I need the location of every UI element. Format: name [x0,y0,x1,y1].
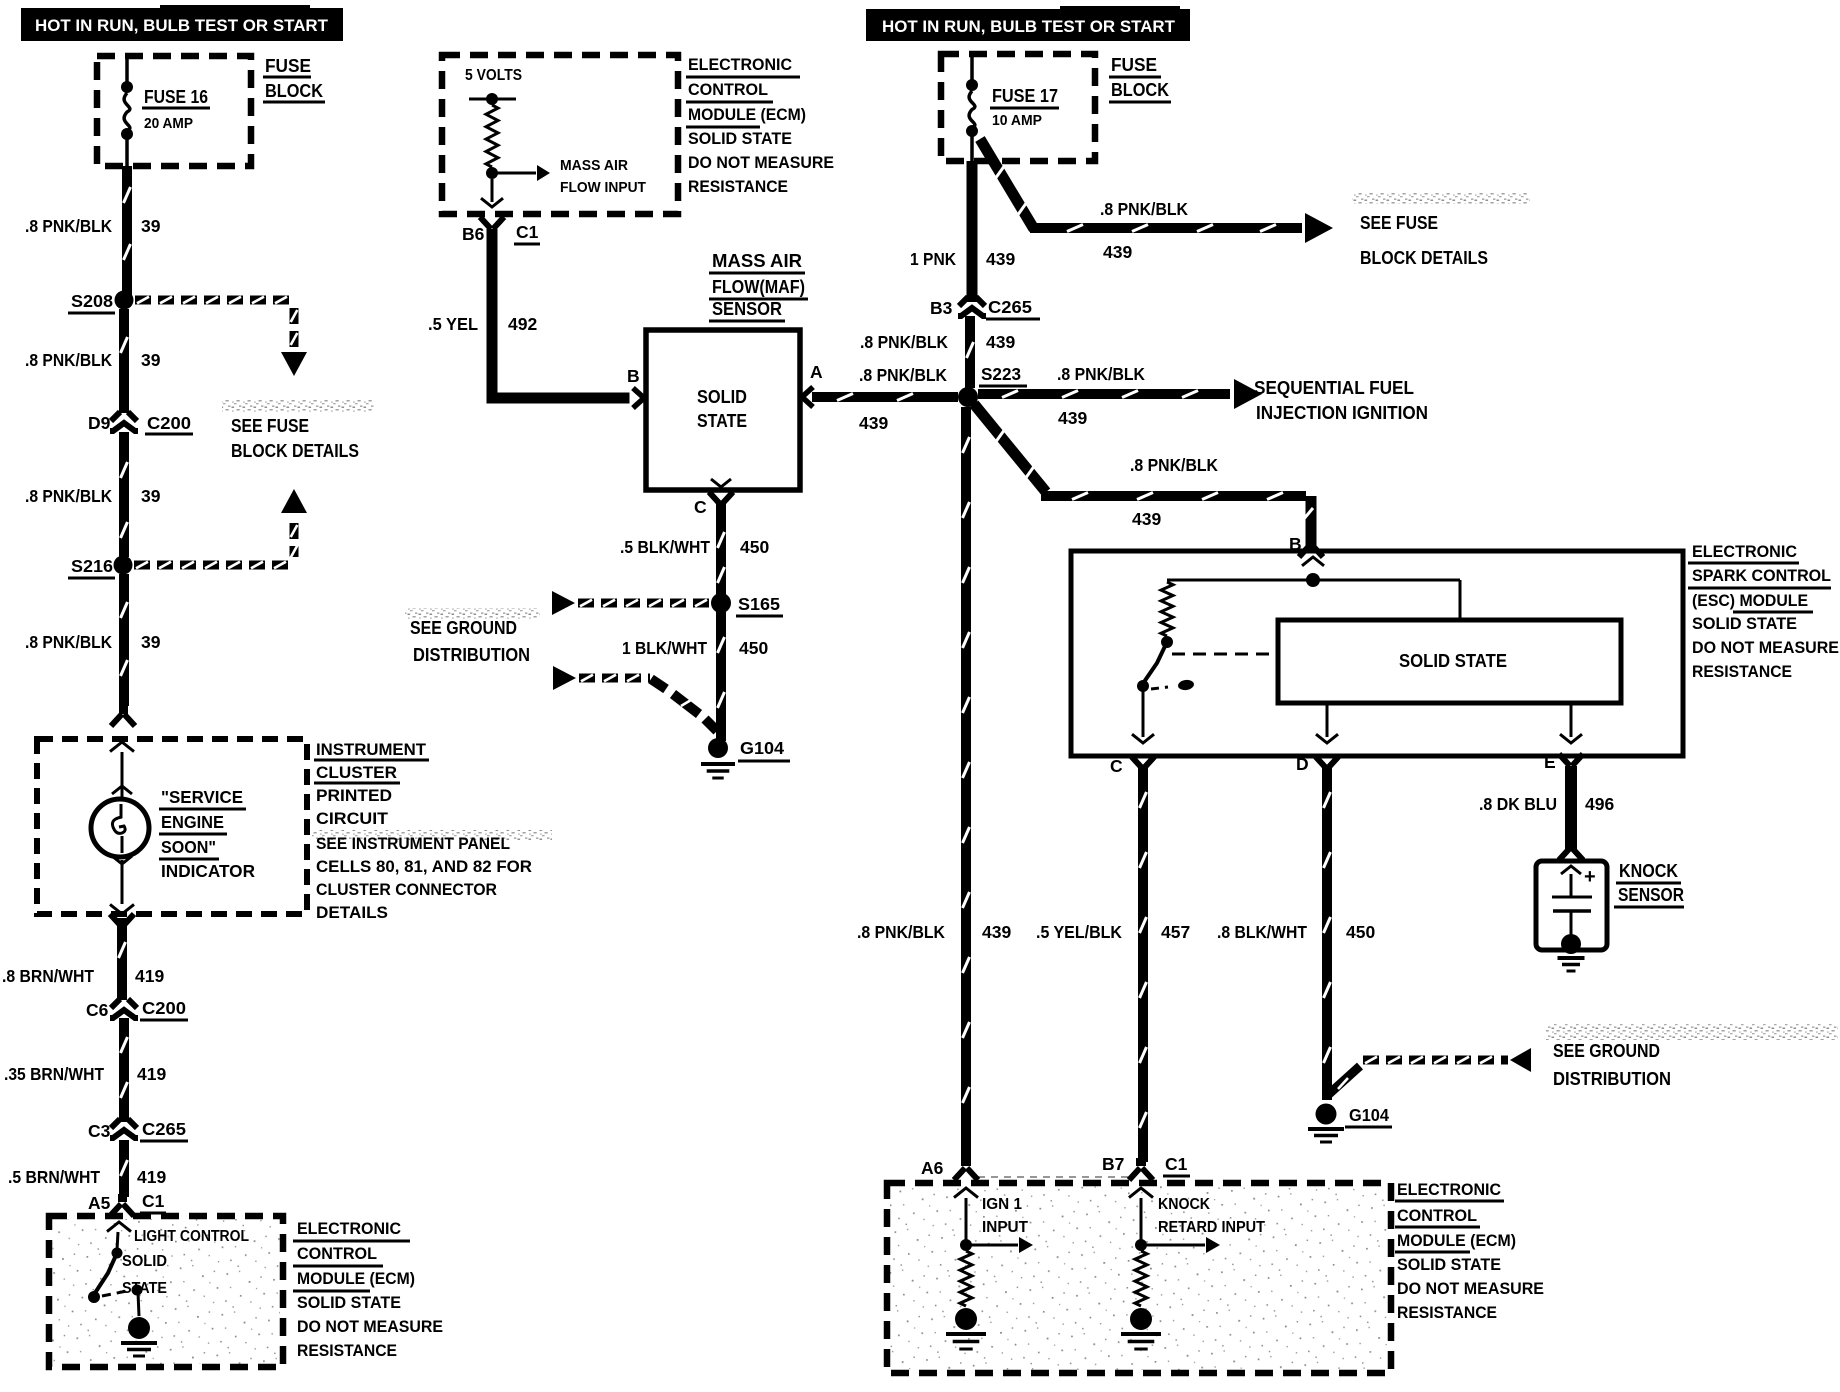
MAF sensor box [646,330,800,490]
wire MAF A to S223, .8 PNK/BLK 439 [812,392,958,402]
svg-text:CONTROL: CONTROL [688,81,768,99]
svg-text:FUSE 16: FUSE 16 [144,87,208,107]
connector C200 pin C6 [111,999,137,1008]
svg-text:.5 YEL/BLK: .5 YEL/BLK [1036,922,1122,942]
svg-text:+: + [1584,866,1596,888]
svg-text:SOLID STATE: SOLID STATE [297,1294,401,1312]
svg-text:496: 496 [1585,794,1614,814]
fuse block (left) dashed box [97,56,251,166]
svg-text:STATE: STATE [122,1280,167,1297]
svg-text:INDICATOR: INDICATOR [161,861,255,881]
svg-text:439: 439 [1058,408,1087,428]
svg-text:439: 439 [1132,509,1161,529]
svg-text:.5 BLK/WHT: .5 BLK/WHT [620,537,710,557]
svg-text:450: 450 [1346,922,1375,942]
wire S208 to D9, .8 PNK/BLK 39 [119,309,129,413]
wire E to knock sensor, .8 DK BLU 496 [1565,766,1577,849]
svg-text:CLUSTER CONNECTOR: CLUSTER CONNECTOR [316,881,497,899]
svg-text:.8 PNK/BLK: .8 PNK/BLK [860,332,948,352]
svg-text:(ESC) MODULE: (ESC) MODULE [1692,592,1808,610]
svg-text:SOLID STATE: SOLID STATE [1692,615,1797,633]
svg-text:.8 PNK/BLK: .8 PNK/BLK [1100,199,1188,219]
svg-text:10 AMP: 10 AMP [992,112,1042,129]
svg-text:RESISTANCE: RESISTANCE [1692,663,1792,681]
svg-text:SEE GROUND: SEE GROUND [410,618,517,638]
svg-text:457: 457 [1161,922,1190,942]
svg-text:.8 PNK/BLK: .8 PNK/BLK [25,350,112,370]
ground G104 (right) [1316,1104,1337,1125]
svg-text:.5 BRN/WHT: .5 BRN/WHT [8,1167,100,1187]
fuse F16 [125,56,129,83]
svg-text:ELECTRONIC: ELECTRONIC [1397,1181,1501,1199]
node S208 [115,291,134,310]
svg-text:CONTROL: CONTROL [1397,1207,1477,1225]
svg-text:C1: C1 [1165,1154,1188,1174]
svg-text:B3: B3 [930,298,953,318]
svg-text:439: 439 [859,413,888,433]
connector C265 pin B3 [959,297,985,306]
svg-text:RESISTANCE: RESISTANCE [1397,1304,1497,1322]
svg-text:HOT IN RUN, BULB TEST OR START: HOT IN RUN, BULB TEST OR START [882,18,1175,36]
knock sensor ground [1561,934,1581,954]
svg-text:.8 PNK/BLK: .8 PNK/BLK [857,922,945,942]
svg-text:MODULE (ECM): MODULE (ECM) [688,106,806,124]
ESC internal resistor [1161,582,1173,636]
svg-text:SOLID STATE: SOLID STATE [1397,1256,1501,1274]
svg-text:E: E [1544,752,1556,772]
svg-text:KNOCK: KNOCK [1619,861,1678,881]
svg-text:.8 PNK/BLK: .8 PNK/BLK [1130,455,1218,475]
svg-text:C200: C200 [147,413,191,433]
svg-text:MASS AIR: MASS AIR [712,251,802,271]
svg-text:CIRCUIT: CIRCUIT [316,810,388,828]
svg-text:"SERVICE: "SERVICE [161,787,243,807]
svg-text:DO NOT MEASURE: DO NOT MEASURE [1397,1280,1544,1298]
svg-text:.8 PNK/BLK: .8 PNK/BLK [859,365,947,385]
svg-text:C265: C265 [142,1119,186,1139]
svg-text:439: 439 [982,922,1011,942]
svg-text:C265: C265 [988,297,1032,317]
wire fuse17 down, 1 PNK 439 [967,161,978,302]
svg-text:439: 439 [1103,242,1132,262]
SEE GROUND DISTRIBUTION text (middle) [405,608,540,619]
svg-text:INSTRUMENT: INSTRUMENT [316,741,426,759]
svg-text:G104: G104 [1349,1105,1389,1125]
svg-text:ELECTRONIC: ELECTRONIC [1692,543,1797,561]
svg-text:39: 39 [141,216,161,236]
svg-text:.8 BLK/WHT: .8 BLK/WHT [1217,922,1307,942]
svg-text:.8 PNK/BLK: .8 PNK/BLK [25,632,112,652]
svg-text:FLOW(MAF): FLOW(MAF) [712,277,805,297]
svg-text:B6: B6 [462,224,485,244]
svg-text:DISTRIBUTION: DISTRIBUTION [1553,1069,1671,1089]
svg-text:A: A [810,362,823,382]
svg-text:CONTROL: CONTROL [297,1245,377,1263]
svg-text:INJECTION IGNITION: INJECTION IGNITION [1256,403,1428,423]
svg-text:KNOCK: KNOCK [1158,1196,1211,1213]
wire fuse16 to S208, .8 PNK/BLK 39 [122,166,132,296]
svg-text:419: 419 [137,1167,166,1187]
svg-text:S208: S208 [71,291,113,311]
wire B6 to MAF sensor B, .5 YEL 492 [487,229,498,398]
svg-text:.8 PNK/BLK: .8 PNK/BLK [1057,364,1145,384]
svg-text:DO NOT MEASURE: DO NOT MEASURE [688,154,834,172]
dashed wire S216 to fuse-block-details arrow (up) [134,561,150,570]
svg-text:.8 PNK/BLK: .8 PNK/BLK [25,486,112,506]
svg-text:SEQUENTIAL FUEL: SEQUENTIAL FUEL [1254,378,1414,398]
svg-text:BLOCK DETAILS: BLOCK DETAILS [1360,248,1488,268]
svg-text:419: 419 [135,966,164,986]
ECM (light control) dashed box bottom-left [52,1219,280,1364]
ECM dashed box bottom-right [890,1186,1388,1370]
svg-text:SOLID STATE: SOLID STATE [688,130,792,148]
svg-text:.8 DK BLU: .8 DK BLU [1479,794,1557,814]
wire cluster to C6, .8 BRN/WHT 419 [110,914,134,926]
instrument cluster dashed box [37,739,307,914]
svg-text:SEE FUSE: SEE FUSE [231,416,309,436]
connector into instrument cluster [111,714,135,726]
wire S223 to sequential fuel injection, .8 PNK/BLK 439 [978,389,1230,399]
svg-text:439: 439 [986,249,1015,269]
svg-text:FUSE: FUSE [265,56,311,76]
svg-text:STATE: STATE [697,411,747,431]
svg-text:RESISTANCE: RESISTANCE [297,1342,397,1360]
svg-text:39: 39 [141,632,161,652]
svg-text:RETARD INPUT: RETARD INPUT [1158,1219,1265,1236]
wire S216 to instrument cluster, .8 PNK/BLK 39 [119,574,129,706]
svg-text:5 VOLTS: 5 VOLTS [465,67,522,84]
svg-text:CELLS 80, 81, AND 82 FOR: CELLS 80, 81, AND 82 FOR [316,858,532,876]
light control driver switch [117,1232,118,1250]
MAF terminal A flare [802,387,813,407]
svg-text:SEE GROUND: SEE GROUND [1553,1041,1660,1061]
svg-text:S223: S223 [981,364,1021,384]
svg-text:C1: C1 [516,222,539,242]
svg-text:DO NOT MEASURE: DO NOT MEASURE [1692,639,1839,657]
ESC module outer box [1071,551,1683,756]
svg-text:S216: S216 [71,556,113,576]
svg-text:DETAILS: DETAILS [316,904,388,922]
svg-text:C1: C1 [142,1191,165,1211]
svg-text:CLUSTER: CLUSTER [316,764,397,782]
ESC internal node [1306,573,1320,587]
knock sensor box [1536,861,1607,950]
svg-text:450: 450 [740,537,769,557]
svg-text:20 AMP: 20 AMP [144,115,193,132]
svg-text:IGN 1: IGN 1 [982,1196,1022,1213]
svg-text:.8 BRN/WHT: .8 BRN/WHT [2,966,94,986]
connector C200 pin D9 [111,412,137,421]
node S216 [114,556,133,575]
svg-text:SEE FUSE: SEE FUSE [1360,213,1438,233]
svg-text:.8 PNK/BLK: .8 PNK/BLK [25,216,112,236]
svg-text:FUSE: FUSE [1111,55,1157,75]
svg-text:S165: S165 [738,594,780,614]
svg-text:439: 439 [986,332,1015,352]
svg-text:1 PNK: 1 PNK [910,249,956,269]
svg-text:.35 BRN/WHT: .35 BRN/WHT [4,1064,104,1084]
wire B3 to S223, .8 PNK/BLK 439 [965,316,975,388]
svg-text:ENGINE: ENGINE [161,812,224,832]
wire ESC D to G104, .8 BLK/WHT 450 [1322,767,1332,1100]
svg-text:SOLID: SOLID [122,1253,167,1270]
wire C3 to A5, .5 BRN/WHT 419 [119,1140,129,1197]
KNOCK RETARD input circuit [1129,1188,1153,1198]
pull-up resistor in ECM [486,105,498,167]
MAF terminal C [711,479,731,487]
svg-text:39: 39 [141,486,161,506]
svg-text:BLOCK: BLOCK [265,81,323,101]
connector C265 pin C3 [111,1119,137,1128]
node: HOT IN RUN BULB TEST OR START label (right) [866,9,1190,41]
svg-text:.5 YEL: .5 YEL [428,314,478,334]
node S165 [711,593,731,613]
svg-text:SOLID: SOLID [697,387,747,407]
ground G104 (middle) [708,738,728,758]
svg-text:419: 419 [137,1064,166,1084]
svg-text:DISTRIBUTION: DISTRIBUTION [413,645,530,665]
SERVICE ENGINE SOON indicator bulb [121,752,124,800]
svg-text:HOT IN RUN, BULB TEST OR START: HOT IN RUN, BULB TEST OR START [35,17,328,35]
svg-text:C: C [694,497,707,517]
svg-text:SEE INSTRUMENT PANEL: SEE INSTRUMENT PANEL [316,835,510,853]
svg-text:D: D [1296,754,1309,774]
svg-text:A5: A5 [88,1193,111,1213]
svg-text:SPARK CONTROL: SPARK CONTROL [1692,567,1831,585]
fuse F17 [970,54,974,81]
svg-text:SOON": SOON" [161,837,216,857]
dashed wire to S165 from ground distribution [552,591,575,615]
fuse block (right) dashed box [941,54,1095,161]
ESC dashed control link [1172,653,1278,656]
svg-text:MASS AIR: MASS AIR [560,157,628,174]
svg-text:FLOW INPUT: FLOW INPUT [560,179,646,196]
ESC internal wires to terminals [1142,690,1145,737]
mass air flow input arrow [492,172,536,175]
branch wire to fuse block details, .8 PNK/BLK 439 [980,139,1034,229]
svg-text:ELECTRONIC: ELECTRONIC [297,1220,401,1238]
MAF terminal B flare [633,388,644,408]
knock sensor piezo capacitor [1570,874,1573,896]
dashed wire S208 to fuse-block-details arrow (down) [135,296,151,305]
svg-text:G104: G104 [740,738,784,758]
ESC internal switch [1144,642,1167,682]
dashed wire joining G104 from ground distribution [553,666,576,690]
wire S223 to ESC B, .8 PNK/BLK 439 [974,404,1046,492]
SEE FUSE BLOCK DETAILS text [222,400,374,412]
node: HOT IN RUN BULB TEST OR START label (left) [21,8,343,41]
wire ESC C to B7, .5 YEL/BLK 457 [1138,767,1148,1162]
svg-text:SENSOR: SENSOR [1618,885,1684,905]
svg-text:D9: D9 [88,413,111,433]
svg-text:C3: C3 [88,1121,111,1141]
svg-text:C6: C6 [86,1000,109,1020]
svg-text:BLOCK DETAILS: BLOCK DETAILS [231,441,359,461]
svg-text:450: 450 [739,638,768,658]
svg-text:A6: A6 [921,1158,944,1178]
svg-text:DO NOT MEASURE: DO NOT MEASURE [297,1318,443,1336]
wire D to ground distribution dashed [1329,1066,1360,1094]
5V supply node [486,93,498,105]
ECM dashed box (top middle) [442,55,678,214]
svg-text:BLOCK: BLOCK [1111,80,1169,100]
svg-text:C: C [1110,756,1123,776]
svg-text:PRINTED: PRINTED [316,787,392,805]
svg-text:INPUT: INPUT [982,1219,1029,1236]
svg-text:LIGHT CONTROL: LIGHT CONTROL [134,1228,249,1245]
IGN 1 input circuit [954,1188,978,1198]
svg-text:ELECTRONIC: ELECTRONIC [688,56,792,74]
main wire S223 down to A6, .8 PNK/BLK 439 [961,407,971,1162]
svg-text:1 BLK/WHT: 1 BLK/WHT [622,638,707,658]
svg-text:C200: C200 [142,998,186,1018]
ground inside light-control ECM [128,1317,150,1339]
wire C6 to C3, .35 BRN/WHT 419 [119,1018,129,1122]
svg-text:492: 492 [508,314,537,334]
svg-text:RESISTANCE: RESISTANCE [688,178,788,196]
svg-text:B7: B7 [1102,1154,1124,1174]
ESC inner solid state box [1278,620,1621,703]
svg-text:SOLID STATE: SOLID STATE [1399,651,1507,671]
svg-text:39: 39 [141,350,161,370]
svg-text:MODULE (ECM): MODULE (ECM) [297,1270,415,1288]
svg-text:SENSOR: SENSOR [712,299,782,319]
svg-text:B: B [627,366,640,386]
connector C1 pin B6 [480,217,504,229]
SEE GROUND DISTRIBUTION text (right) [1546,1024,1838,1040]
wire MAF C to S165, .5 BLK/WHT 450 [716,503,726,741]
svg-text:MODULE (ECM): MODULE (ECM) [1397,1232,1516,1250]
wire D9 to S216, .8 PNK/BLK 39 [119,432,129,557]
SEE FUSE BLOCK DETAILS text (right) [1352,193,1530,204]
svg-text:FUSE 17: FUSE 17 [992,86,1058,106]
